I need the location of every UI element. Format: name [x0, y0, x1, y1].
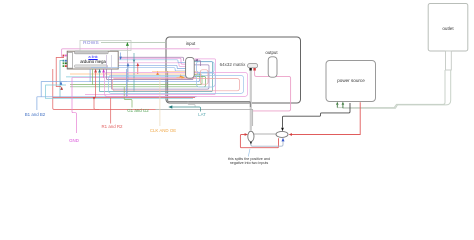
teal left vertical	[60, 61, 64, 97]
outlet-to-power cable	[337, 70, 445, 108]
green G leader	[124, 87, 132, 108]
cyan y98.7	[46, 98, 193, 100]
big blue loop	[109, 75, 244, 93]
small gray bends near LAT	[188, 102, 195, 107]
orange up arrow 2	[179, 74, 182, 78]
teal up arrow x134.8	[133, 53, 135, 92]
arduino mega board	[67, 51, 118, 69]
teal up arrow under arduino	[99, 73, 101, 92]
big red loop	[113, 78, 240, 90]
magenta up arrow under arduino	[103, 73, 105, 78]
blue y96.8	[41, 96, 196, 98]
purple arrow into pill right	[195, 60, 201, 66]
green y86.8	[70, 77, 206, 87]
red arrow down x94	[93, 97, 96, 100]
splitter ellipse	[276, 131, 288, 137]
splitter connecting line	[254, 133, 276, 135]
red R1R2 leader	[110, 98, 112, 124]
output pill	[268, 57, 277, 77]
red wire mid: arduino to lower bus	[53, 69, 156, 109]
gray wire drop from rows	[118, 51, 120, 55]
blue arrow up into ellipse	[282, 138, 285, 142]
arduino top strip	[74, 51, 108, 54]
light gray bus lower	[156, 109, 253, 126]
big pink loop	[105, 72, 248, 96]
splitter gray/blue loop	[251, 141, 283, 146]
power input arrow 1	[336, 105, 338, 108]
64x32 matrix panel box	[166, 37, 301, 103]
purple y89.1	[112, 65, 209, 89]
orange y74	[70, 71, 197, 74]
cyan up arrow	[60, 84, 62, 86]
red left vertical	[56, 58, 64, 87]
pink y77.6	[72, 77, 196, 79]
blue label leader	[37, 97, 41, 110]
blue down arrow x120.6	[120, 53, 122, 57]
output plug	[248, 64, 258, 68]
red up arrow x137.8	[137, 66, 139, 74]
left cyan loop	[46, 85, 66, 99]
orange CLK leader	[159, 74, 161, 126]
orange y71.3	[152, 70, 196, 72]
power input arrow 2	[342, 105, 344, 108]
left blue loop	[41, 82, 67, 97]
pink y62.8	[119, 63, 186, 67]
small loops right of input pill	[196, 62, 214, 72]
ROWS label box	[80, 40, 131, 50]
power source box	[326, 61, 376, 102]
pink GND leader	[72, 78, 76, 133]
orange up arrow 1	[157, 72, 159, 76]
green arrow on ROWS	[126, 46, 128, 96]
wire red: power source to splitter ellipse right	[292, 102, 360, 134]
black arrow down capsule bottom	[250, 141, 253, 144]
top pink line	[62, 49, 200, 57]
dark gray bus: matrix area to splitter	[168, 72, 251, 108]
wire pink: output plug to splitter	[253, 71, 291, 111]
purple y57.3	[120, 57, 183, 61]
splitter red loop	[240, 135, 278, 148]
arduino bottom strip	[74, 65, 107, 68]
purple y79.5	[107, 78, 194, 80]
green y84.6	[70, 75, 202, 85]
input pill	[186, 57, 195, 78]
pink y94.5	[85, 59, 216, 95]
blue y65.3	[119, 65, 186, 68]
pink y58.2	[119, 58, 186, 64]
outlet cord stub	[446, 51, 452, 70]
outlet box	[428, 4, 468, 52]
blue line y59.8	[119, 60, 186, 63]
vertical drops from arduino bottom	[89, 69, 91, 82]
arduino left header	[68, 53, 73, 69]
wire black: power source to splitter ellipse	[283, 103, 351, 128]
blue y81.7	[41, 72, 199, 81]
cyan y76.9	[66, 76, 186, 78]
orange arrow into pill left	[177, 76, 182, 78]
gray cable: output plug to splitter capsule	[250, 71, 252, 131]
note leader	[248, 149, 250, 157]
top green row line	[101, 41, 166, 43]
arduino left pin dots	[63, 55, 65, 57]
blue up arrow x128	[127, 66, 129, 82]
text labels	[68, 41, 114, 46]
dark red up arrow	[60, 87, 63, 90]
red y97.6	[53, 97, 195, 99]
blue y67.7	[91, 68, 186, 71]
teal LAT wire + arrow	[172, 107, 201, 112]
red up arrow under arduino	[95, 73, 97, 98]
splitter capsule	[248, 131, 254, 141]
teal y91.6	[100, 62, 213, 92]
